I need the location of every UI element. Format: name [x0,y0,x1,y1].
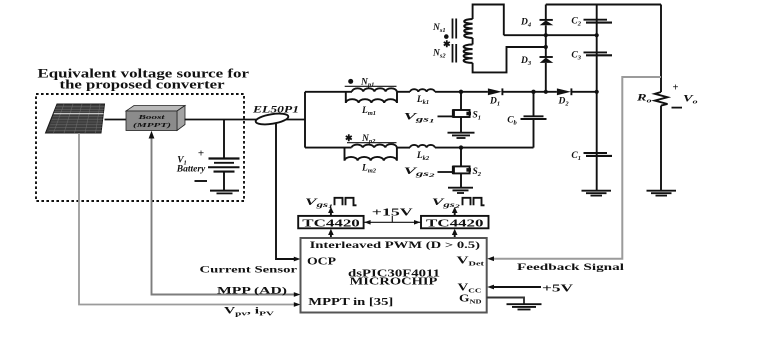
wire to Np1 [305,91,352,93]
+15V supply [364,221,421,223]
svg-text:TC4420: TC4420 [426,217,484,229]
svg-text:TC4420: TC4420 [302,217,360,229]
node S1 drain [459,90,463,94]
node S2 drain [459,145,463,149]
svg-text:S1: S1 [473,111,482,122]
gate driver TC4420 #1 [298,216,363,228]
wire Ns2 bottom to D column [473,47,546,72]
capacitor C3 [584,51,608,53]
svg-text:S2: S2 [473,167,482,178]
svg-text:Ro: Ro [635,94,652,105]
svg-text:Lm1: Lm1 [361,106,376,117]
svg-text:the proposed converter: the proposed converter [60,78,226,92]
svg-text:D1: D1 [489,97,500,108]
svg-text:Ns2: Ns2 [432,49,446,60]
dashed box: equivalent voltage source [36,94,244,201]
main output rail [596,5,598,191]
svg-text:+: + [198,148,204,160]
output drop wire [660,5,662,93]
capacitor Cb [533,92,535,116]
ground under S1 [448,133,475,138]
leakage inductor Lk1 [410,89,435,92]
arrow TC4420#2 to Vgs2 [454,210,456,216]
svg-text:MPP (AD): MPP (AD) [217,285,287,296]
arrow TC4420#1 to Vgs1 [330,210,332,216]
GND wire and ground [487,298,524,304]
svg-text:D2: D2 [557,97,569,108]
svg-text:OCP: OCP [307,256,336,267]
svg-text:Interleaved PWM (D > 0.5): Interleaved PWM (D > 0.5) [310,240,480,251]
wire Ns junction [472,38,474,45]
diode D4 [545,5,547,21]
capacitor C1 [584,152,608,154]
diode D3 [540,56,553,58]
svg-text:D3: D3 [520,56,532,67]
PV panel [46,104,105,133]
wire Ns1 top to mid-wire [473,5,504,36]
feedback wire (gray) [492,77,661,259]
svg-text:Vgs1: Vgs1 [404,112,436,125]
svg-text:Current Sensor: Current Sensor [200,265,298,276]
svg-text:Vgs1: Vgs1 [305,198,333,210]
mosfet S2 [438,148,472,187]
svg-text:✱: ✱ [443,39,451,49]
title annotation [38,67,250,92]
magnetizing inductor Lm1 [346,92,397,103]
current sensor wire to chip [276,124,296,259]
svg-text:+5V: +5V [542,282,573,294]
svg-text:Vgs2: Vgs2 [404,166,436,179]
wire D1 to D2 [502,91,557,93]
winding Np2 [352,144,397,148]
magnetizing inductor Lm2 [345,148,397,161]
svg-text:Vgs2: Vgs2 [432,198,460,210]
wire Np2 to Lk2 [397,147,410,149]
top rail [546,4,661,6]
svg-text:D4: D4 [520,18,532,29]
ground under rail [582,191,612,196]
svg-text:C3: C3 [571,51,581,62]
wire MPP(AD) from boost [152,138,297,295]
svg-text:C1: C1 [571,151,581,162]
battery V1 [208,120,240,194]
svg-text:Battery: Battery [176,165,206,175]
svg-text:Lm2: Lm2 [361,163,377,174]
svg-text:C2: C2 [571,17,581,28]
ground under S2 [448,188,473,193]
svg-text:Vpv, iPV: Vpv, iPV [224,306,275,318]
wire boost to battery node and out of box [185,119,306,121]
svg-text:+: + [673,83,679,94]
resistor Ro [655,92,668,106]
svg-text:Boost: Boost [137,114,165,121]
svg-text:MICROCHIP: MICROCHIP [350,277,438,288]
wire PV to boost [105,119,127,121]
microcontroller dsPIC30F4011 [301,238,487,313]
diode D2 [557,88,571,95]
svg-text:Lk2: Lk2 [416,151,430,162]
secondary winding Ns2 [464,45,473,63]
wire Lk2 to Cb bottom [435,147,534,149]
svg-text:MPPT in [35]: MPPT in [35] [308,297,393,308]
svg-text:(MPPT): (MPPT) [133,122,171,129]
arrows chip to gate drivers [330,232,332,239]
wire Lk1 to D1 [435,91,488,93]
winding Np1 [352,88,397,92]
svg-text:Feedback Signal: Feedback Signal [517,262,624,273]
gray wire Vpv/ipv from PV [79,133,296,305]
svg-text:Ns1: Ns1 [432,23,446,34]
svg-text:✱: ✱ [345,133,353,143]
diode D1 [488,88,502,95]
svg-text:+15V: +15V [372,206,413,218]
mosfet S1 [438,92,472,132]
svg-text:Cb: Cb [507,116,517,127]
+5V supply [492,286,541,288]
leakage inductor Lk2 [410,145,435,148]
svg-text:Lk1: Lk1 [416,95,429,106]
wire D2 to rail [571,91,596,93]
secondary winding Ns1 [464,19,472,38]
transformer core [453,19,457,63]
svg-text:Np2: Np2 [361,134,376,145]
wire to Np2 [305,147,352,149]
mid wire to rail [504,34,597,36]
ground under Ro [647,191,677,196]
gate driver TC4420 #2 [421,216,489,228]
boost (MPPT) block [126,106,185,131]
phase splitter node [304,92,306,148]
svg-text:Vo: Vo [683,95,699,106]
wire Np1 to Lk1 [397,91,410,93]
capacitor C2 [584,19,608,21]
